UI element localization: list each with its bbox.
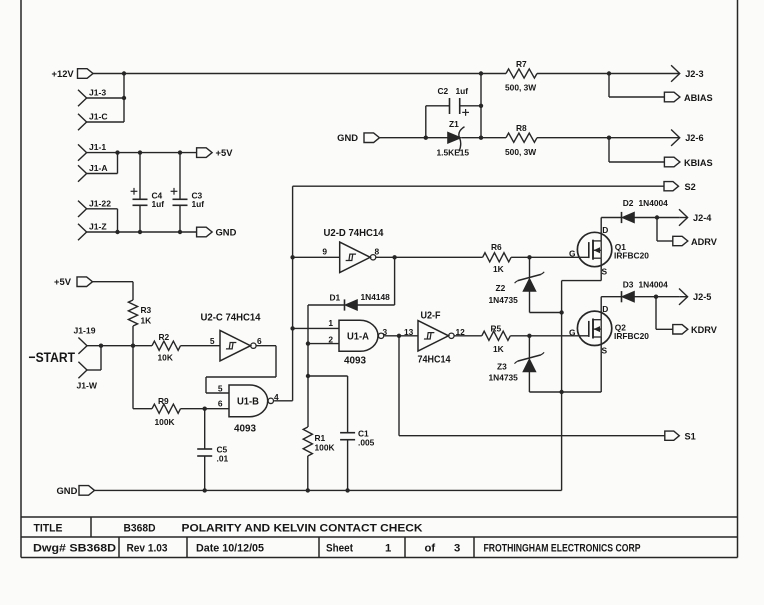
wire pin 1 [293,327,339,329]
svg-text:1: 1 [385,543,391,555]
svg-text:R1: R1 [315,433,326,443]
junction [306,374,310,378]
wire S1 line [398,336,400,436]
wire [93,281,134,283]
transistor Q2 IRFBC20 [569,304,649,355]
GND tag (bottom) [57,485,95,496]
svg-text:6: 6 [218,399,223,409]
junction [479,104,483,108]
op-amp U2-D 74HC14 inverter [324,228,384,273]
wire ABIAS branch [608,74,610,98]
KBIAS tag [664,157,712,168]
connector J2-5 [679,289,711,305]
connector J1-19 [74,326,96,354]
junction [527,334,531,338]
svg-text:S: S [602,266,608,276]
junction [178,230,182,234]
capacitor C4 [131,153,165,232]
junction [115,150,119,154]
svg-text:500, 3W: 500, 3W [505,83,536,93]
svg-text:1uf: 1uf [152,199,165,209]
junction [290,326,294,330]
S2 tag [664,182,696,192]
svg-text:1N4148: 1N4148 [361,292,391,302]
svg-text:500, 3W: 500, 3W [505,147,536,157]
diode D3 1N4004 [622,279,669,302]
svg-text:POLARITY AND KELVIN CONTACT: POLARITY AND KELVIN CONTACT CHECK [182,523,424,535]
svg-text:of: of [425,543,436,555]
svg-text:+12V: +12V [52,68,75,79]
svg-text:Z2: Z2 [496,283,506,293]
transistor Q1 IRFBC20 [569,225,649,276]
wire [87,173,118,175]
junction [122,71,126,75]
nand gate U1-A 4093 [339,320,384,366]
wire [537,73,680,75]
svg-text:FROTHINGHAM ELECTRONICS CORP: FROTHINGHAM ELECTRONICS CORP [484,543,641,555]
wire KBIAS branch [608,138,610,162]
svg-text:1: 1 [328,318,333,328]
svg-text:5: 5 [210,336,215,346]
diode D2 1N4004 [622,198,669,223]
wire pin 12 output [454,335,482,337]
svg-text:ABIAS: ABIAS [684,93,713,103]
connector J1-W [77,362,98,391]
junction [527,255,531,259]
junction [479,136,483,140]
zener Z3 1N4735 [489,336,562,392]
wire D1 anode to U2-D out [358,304,395,306]
wire KDRV branch [655,297,657,330]
junction [178,150,182,154]
svg-text:U2-C 74HC14: U2-C 74HC14 [201,313,261,324]
svg-text:D: D [602,225,608,235]
svg-text:S2: S2 [685,182,696,192]
svg-text:R7: R7 [516,59,527,69]
GND tag (bias return) [337,132,379,143]
connector J2-4 [679,209,712,225]
junction [559,310,563,314]
svg-text:3: 3 [454,543,460,555]
svg-text:GND: GND [216,227,237,238]
wire [181,345,221,347]
junction [306,488,310,492]
svg-text:Date 10/12/05: Date 10/12/05 [196,543,264,555]
svg-text:9: 9 [322,246,327,256]
resistor R3 1K [128,300,151,326]
svg-text:−START: −START [29,350,76,366]
wire GND node row [87,231,197,233]
capacitor C3 [171,153,205,232]
svg-text:J1-W: J1-W [77,381,98,391]
wire D1 cathode [308,304,345,306]
connector J2-3 [671,65,703,81]
svg-text:IRFBC20: IRFBC20 [614,331,649,341]
junction [607,71,611,75]
svg-text:5: 5 [218,383,223,393]
svg-text:.01: .01 [217,454,229,464]
svg-text:100K: 100K [315,443,335,453]
wire [601,217,621,219]
wire Q1 source to gnd bus [600,258,602,280]
svg-text:.005: .005 [358,437,375,447]
svg-text:G: G [569,249,576,259]
wire gate Q2 [510,335,589,337]
svg-text:Sheet: Sheet [326,543,353,555]
svg-text:J1-C: J1-C [89,112,108,122]
svg-text:R6: R6 [491,242,502,252]
wire [380,137,448,139]
svg-text:1K: 1K [493,344,504,354]
svg-text:ADRV: ADRV [691,237,718,247]
svg-text:U2-D 74HC14: U2-D 74HC14 [324,228,384,239]
connector J1-A [78,163,108,182]
svg-text:100K: 100K [155,417,175,427]
connector J1-1 [78,142,106,161]
connector J2-6 [671,130,703,146]
wire Q2 source to gnd bus [600,337,602,392]
wire [307,456,309,490]
junction [203,407,207,411]
svg-text:J1-22: J1-22 [89,198,111,208]
svg-text:J1-3: J1-3 [89,88,106,98]
+5V supply tag [197,147,234,158]
connector J1-22 [78,198,111,217]
connector J1-C [78,112,108,131]
junction [138,150,142,154]
wire Q1 drain [600,218,602,241]
svg-text:D2: D2 [623,198,634,208]
svg-text:J1-A: J1-A [89,163,108,173]
svg-text:TITLE: TITLE [34,523,63,535]
resistor R8 500,3W [505,123,537,157]
+12V supply tag [52,68,94,79]
nand gate U1-B 4093 [229,385,273,434]
svg-text:1N4735: 1N4735 [489,373,519,383]
wire [133,408,152,410]
svg-text:Z3: Z3 [497,361,507,371]
KDRV tag [673,325,718,336]
svg-text:R9: R9 [158,396,169,406]
junction [290,255,294,259]
svg-text:J2-5: J2-5 [693,292,711,302]
capacitor C1 [308,376,375,490]
svg-text:S1: S1 [685,431,696,441]
wire pin 2 [308,343,339,345]
svg-text:U2-F: U2-F [421,310,441,321]
svg-text:D: D [602,304,608,314]
svg-text:R5: R5 [491,323,502,333]
ADRV tag [673,236,718,247]
wire [87,369,101,371]
wire GND rail [95,489,562,491]
junction [559,390,563,394]
svg-text:1uf: 1uf [456,86,469,96]
resistor R6 1K [483,242,512,274]
svg-text:U1-A: U1-A [347,331,370,342]
op-amp U2-C 74HC14 inverter [201,313,261,361]
wire [87,97,124,99]
wire Q2 drain [600,297,602,320]
svg-text:C2: C2 [438,86,449,96]
wire pin 4 output [274,400,293,402]
junction [655,215,659,219]
resistor R1 100K [303,427,334,456]
svg-text:IRFBC20: IRFBC20 [614,250,649,260]
svg-text:1.5KE15: 1.5KE15 [437,147,470,157]
svg-text:1K: 1K [141,315,152,325]
connector J1-3 [78,88,106,107]
wire gate Q1 [511,256,589,258]
capacitor C5 [197,409,228,491]
junction [479,71,483,75]
svg-text:74HC14: 74HC14 [418,354,451,365]
GND tag [197,227,237,238]
junction [115,230,119,234]
junction [345,488,349,492]
svg-text:B368D: B368D [124,523,156,535]
svg-text:GND: GND [337,132,358,143]
svg-text:R3: R3 [141,305,152,315]
svg-text:S: S [602,345,608,355]
wire [87,345,152,347]
resistor R7 500,3W [505,59,537,93]
svg-text:10K: 10K [158,353,173,363]
wire pin 8 output [376,256,483,258]
resistor R5 1K [482,323,511,354]
wire S2 line [293,185,664,187]
wire [601,296,621,298]
svg-text:Rev 1.03: Rev 1.03 [127,543,168,555]
+5V supply tag (start pullup) [54,276,93,287]
svg-text:2: 2 [328,334,333,344]
junction [397,334,401,338]
svg-text:1N4004: 1N4004 [639,198,669,208]
junction [607,136,611,140]
svg-text:4093: 4093 [344,355,366,366]
svg-text:8: 8 [375,247,380,257]
wire +5V node row [87,152,197,154]
junction [138,230,142,234]
svg-text:R8: R8 [516,123,527,133]
svg-text:+5V: +5V [216,147,234,158]
svg-text:J2-4: J2-4 [693,213,712,223]
svg-text:6: 6 [257,336,262,346]
svg-text:J1-19: J1-19 [74,326,96,336]
op-amp U2-F 74HC14 inverter [418,310,455,365]
svg-text:1uf: 1uf [192,199,205,209]
connector J1-Z [78,222,107,241]
svg-text:J2-3: J2-3 [685,69,703,79]
resistor R2 10K [152,332,181,363]
wire +12V rail [93,73,506,75]
svg-text:U1-B: U1-B [237,397,259,408]
S1 tag [665,431,696,441]
svg-text:J1-1: J1-1 [89,142,106,152]
wire pin 3 output [385,335,419,337]
svg-text:J2-6: J2-6 [685,133,703,143]
svg-text:1N4004: 1N4004 [639,279,669,289]
svg-text:GND: GND [57,485,78,496]
svg-text:Dwg# SB368D: Dwg# SB368D [33,543,116,555]
wire feedback U2-C out to U1-B pin 5 [256,345,276,347]
svg-text:1K: 1K [493,264,504,274]
title block [21,517,738,558]
junction [654,295,658,299]
svg-text:1N4735: 1N4735 [489,295,519,305]
svg-text:D3: D3 [623,279,634,289]
junction [203,488,207,492]
svg-text:D1: D1 [330,292,341,302]
wire pin 9 input [293,256,340,258]
resistor R9 100K [152,396,181,427]
svg-text:+5V: +5V [54,276,72,287]
TVS Z1 1.5KE15 [437,119,470,158]
wire [87,208,118,210]
svg-text:J1-Z: J1-Z [89,222,107,232]
wire [462,137,507,139]
wire [132,326,134,409]
wire ADRV branch [656,218,658,242]
svg-text:KBIAS: KBIAS [684,158,713,168]
junction [424,136,428,140]
svg-text:R2: R2 [159,332,170,342]
svg-text:G: G [569,327,576,337]
wire [87,121,124,123]
wire J1-3/J1-C drop [123,74,125,123]
ABIAS tag [664,92,712,103]
junction [122,96,126,100]
junction [131,344,135,348]
junction [306,341,310,345]
svg-text:KDRV: KDRV [691,325,718,335]
capacitor C2 [426,86,481,138]
wire +12V drop to bias [480,74,482,138]
svg-text:Z1: Z1 [449,119,459,129]
zener Z2 1N4735 [489,257,562,312]
wire [537,137,680,139]
svg-text:4093: 4093 [234,423,256,434]
diode D1 1N4148 [330,292,391,311]
junction [99,344,103,348]
junction [392,255,396,259]
svg-text:13: 13 [404,327,414,337]
